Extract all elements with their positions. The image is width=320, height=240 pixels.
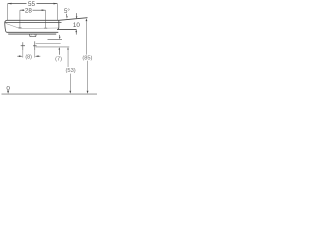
floor zero arrow (7, 91, 9, 94)
dimension (7) up arrow (59, 47, 61, 49)
dimension (85) lower shaft (87, 61, 89, 91)
reference line C upper (48, 39, 63, 41)
svg-text:28: 28 (25, 8, 33, 15)
svg-text:5°: 5° (64, 8, 70, 15)
dimension (7) down arrow (59, 35, 61, 37)
dimension 28 extension lines (20, 10, 46, 28)
svg-text:(53): (53) (66, 68, 76, 74)
reference line A from right cross (36, 43, 61, 45)
dimension 28 arrows (20, 9, 46, 11)
tap hole detail: right cross tick (33, 45, 37, 47)
dimension 10 top arrow (76, 13, 78, 16)
5 degree leader line and arrow (66, 14, 68, 16)
tap hole detail: left cross tick (21, 45, 25, 47)
svg-text:(8): (8) (25, 54, 32, 60)
washbasin side view front edge (57, 20, 59, 29)
dimension (53) up arrow at reference line B (67, 47, 69, 49)
dimension 55 arrows (8, 3, 58, 5)
svg-text:(7): (7) (55, 57, 62, 63)
dimension (53) bottom arrow (69, 91, 71, 94)
washbasin front view left edge (5, 20, 7, 32)
reference line B from right cross (36, 46, 70, 48)
dimension (85) upper shaft (85, 21, 87, 55)
drain fitting below basin (30, 34, 36, 37)
dimension (85) bottom arrow (87, 91, 89, 94)
washbasin front view rim second line (5, 22, 62, 24)
dimension 55 line (8, 3, 58, 5)
dimension (85) up arrow at sloping top (86, 18, 88, 21)
washbasin side view bottom line (57, 28, 76, 30)
tap hole detail: left cross centerline (22, 42, 24, 50)
dimension 55 extension lines (8, 4, 58, 21)
tap hole detail: right cross centerline (34, 41, 36, 50)
dimension 10 bottom arrow (75, 30, 77, 33)
svg-text:10: 10 (73, 22, 81, 29)
dimension (8) right arrow and tail (35, 55, 39, 57)
washbasin interior bowl outline (faint) (6, 23, 59, 28)
washbasin front view rim top line + 5 degree sloping top (7, 18, 88, 21)
floor line (2, 93, 98, 95)
washbasin front view bottom line 2 (8, 33, 56, 35)
dimension (8) line left tail and arrow (17, 55, 19, 57)
dimension (53) lower shaft (69, 74, 71, 91)
tap hole cross tick (44, 27, 47, 29)
dimension (53) upper shaft (67, 50, 69, 67)
dimension 28 line (20, 9, 46, 11)
drain position cross tick (18, 27, 21, 29)
washbasin front view bottom line 1 (7, 31, 58, 33)
svg-text:(85): (85) (82, 55, 92, 61)
